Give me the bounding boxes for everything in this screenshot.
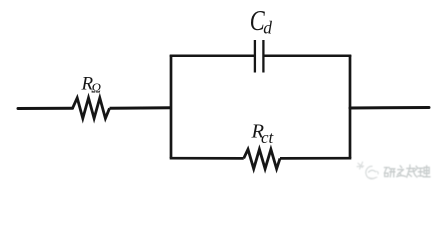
watermark logo mark [357,162,378,179]
node A: left vertical of parallel branch [170,55,173,158]
wire between R_Omega and parallel node [110,106,172,110]
resistor R_Omega zigzag [73,98,110,119]
wire bottom branch left segment [170,157,244,160]
svg-text:d: d [263,18,272,38]
glyph li [418,168,423,176]
capacitor C_d plates [254,40,256,73]
wire top branch left segment [170,55,255,58]
glyph zhi [397,166,406,177]
wire bottom branch right segment [280,157,351,160]
node B: right vertical of parallel branch [349,55,352,158]
glyph yan [384,168,389,177]
resistor R_ct zigzag [244,149,280,169]
watermark text 研之成理 (drawn glyph shapes) [384,165,430,177]
glyph cheng [407,165,418,177]
wire right lead [350,106,429,110]
wire left lead [18,107,73,110]
wire top branch right segment [264,55,351,58]
svg-text:Ω: Ω [91,81,101,96]
svg-text:ct: ct [261,128,275,147]
